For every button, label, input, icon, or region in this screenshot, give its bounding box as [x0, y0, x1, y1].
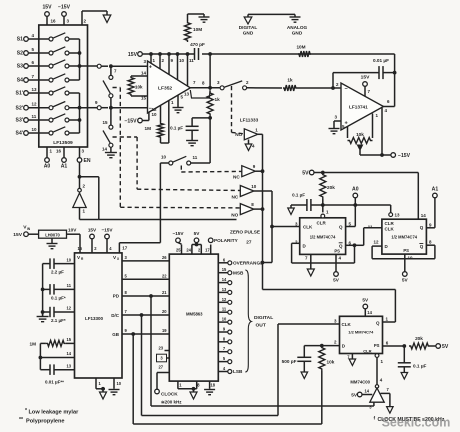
svg-text:A0: A0 — [352, 187, 359, 193]
svg-text:21: 21 — [162, 290, 167, 295]
svg-text:16: 16 — [77, 246, 82, 251]
svg-text:S3: S3 — [17, 64, 23, 70]
svg-text:CLK: CLK — [385, 227, 395, 232]
svg-text:MSB: MSB — [233, 270, 244, 275]
svg-text:0.01 µF**: 0.01 µF** — [45, 380, 64, 385]
svg-text:10M: 10M — [296, 45, 305, 50]
svg-text:S1: S1 — [17, 37, 23, 43]
svg-text:LSB: LSB — [233, 369, 243, 374]
svg-text:CLR: CLR — [363, 349, 371, 354]
svg-text:MM5863: MM5863 — [186, 312, 203, 317]
svg-text:10V: 10V — [68, 228, 77, 233]
svg-text:Low leakage mylar: Low leakage mylar — [29, 410, 80, 416]
svg-text:10k: 10k — [135, 85, 143, 90]
svg-text:A0: A0 — [44, 164, 51, 170]
svg-text:−15V: −15V — [172, 231, 184, 236]
svg-text:Q: Q — [339, 225, 343, 230]
svg-text:EN: EN — [84, 158, 91, 164]
svg-text:10: 10 — [251, 184, 257, 189]
svg-text:15V: 15V — [361, 75, 370, 81]
svg-text:≅200 kHz: ≅200 kHz — [161, 399, 182, 404]
svg-text:S4: S4 — [17, 78, 23, 84]
svg-text:NC: NC — [233, 175, 240, 180]
svg-text:24: 24 — [186, 247, 191, 252]
svg-text:LF352: LF352 — [158, 86, 172, 92]
svg-text:26: 26 — [162, 255, 167, 260]
svg-text:10: 10 — [222, 317, 227, 322]
svg-text:+: + — [149, 64, 152, 70]
svg-text:5V: 5V — [402, 278, 409, 283]
svg-text:PS: PS — [403, 248, 409, 253]
svg-text:10: 10 — [152, 112, 158, 117]
svg-text:LF13509: LF13509 — [53, 140, 73, 146]
svg-text:11: 11 — [32, 114, 37, 119]
svg-text:15V: 15V — [13, 232, 22, 238]
svg-text:1/2 MM74C74: 1/2 MM74C74 — [310, 234, 336, 239]
svg-text:1/2 MM74C74: 1/2 MM74C74 — [348, 329, 374, 334]
svg-text:15: 15 — [66, 337, 71, 342]
svg-text:10k: 10k — [356, 132, 364, 137]
svg-text:OUT: OUT — [256, 323, 266, 329]
svg-text:13: 13 — [184, 92, 190, 97]
svg-text:27: 27 — [246, 240, 252, 245]
svg-text:DIGITAL: DIGITAL — [254, 315, 273, 321]
svg-text:CLK: CLK — [342, 322, 352, 327]
svg-text:LF13300: LF13300 — [85, 316, 104, 321]
svg-text:PD: PD — [113, 294, 120, 299]
svg-text:13: 13 — [222, 287, 227, 292]
svg-text:22: 22 — [162, 274, 167, 279]
svg-text:5V: 5V — [194, 231, 201, 236]
svg-text:−15V: −15V — [101, 228, 113, 233]
svg-text:20k: 20k — [415, 336, 423, 341]
svg-text:13: 13 — [395, 213, 401, 218]
svg-text:+: + — [345, 121, 348, 127]
svg-text:0.1 µF: 0.1 µF — [170, 126, 183, 131]
svg-text:POLARITY: POLARITY — [214, 238, 239, 243]
svg-text:11: 11 — [222, 307, 227, 312]
svg-text:Q: Q — [420, 244, 424, 249]
svg-text:5V: 5V — [333, 278, 340, 283]
svg-text:D/C: D/C — [111, 313, 120, 318]
svg-text:23: 23 — [158, 345, 163, 350]
svg-text:OVERRANGE: OVERRANGE — [233, 261, 263, 266]
svg-text:14: 14 — [222, 277, 227, 282]
svg-text:11: 11 — [67, 283, 72, 288]
svg-text:CLK: CLK — [303, 225, 313, 230]
svg-text:PS: PS — [334, 248, 340, 253]
svg-text:14: 14 — [365, 389, 370, 394]
svg-text:14: 14 — [367, 310, 372, 315]
svg-text:27: 27 — [158, 364, 163, 369]
svg-text:S2: S2 — [17, 51, 23, 57]
svg-text:14: 14 — [141, 71, 147, 76]
svg-text:11: 11 — [189, 58, 194, 63]
svg-text:12: 12 — [222, 297, 227, 302]
svg-text:1/2 MM74C74: 1/2 MM74C74 — [391, 234, 417, 239]
svg-text:2.2 µF: 2.2 µF — [51, 270, 64, 275]
svg-text:S3': S3' — [16, 118, 23, 124]
svg-text:0.1 µF: 0.1 µF — [292, 193, 305, 198]
svg-text:CLR: CLR — [317, 221, 327, 226]
svg-text:GND: GND — [243, 31, 254, 36]
svg-text:10: 10 — [408, 256, 414, 261]
svg-text:17: 17 — [122, 246, 128, 251]
svg-text:5V: 5V — [351, 392, 358, 397]
svg-text:S2': S2' — [16, 105, 23, 111]
svg-text:LF11333: LF11333 — [240, 118, 259, 123]
svg-text:−15V: −15V — [124, 119, 137, 125]
svg-text:15: 15 — [102, 120, 108, 125]
svg-text:13: 13 — [32, 87, 38, 92]
svg-text:15V: 15V — [42, 5, 52, 11]
svg-text:11: 11 — [368, 225, 373, 230]
svg-text:18: 18 — [210, 382, 215, 387]
svg-text:15V: 15V — [88, 228, 97, 233]
svg-text:10M: 10M — [193, 27, 202, 32]
svg-text:10k: 10k — [327, 360, 335, 365]
svg-text:1k: 1k — [215, 97, 221, 102]
svg-text:15: 15 — [222, 267, 227, 272]
svg-text:0.01 µF: 0.01 µF — [373, 58, 389, 63]
svg-text:10: 10 — [32, 127, 38, 132]
svg-text:NO: NO — [231, 213, 238, 218]
svg-text:A1: A1 — [432, 187, 439, 193]
svg-text:15V: 15V — [128, 52, 138, 58]
svg-text:20k: 20k — [327, 185, 335, 190]
svg-text:LF13741: LF13741 — [349, 105, 368, 110]
svg-text:25: 25 — [176, 247, 181, 252]
svg-text:10: 10 — [161, 155, 167, 160]
svg-text:5V: 5V — [302, 171, 309, 177]
svg-text:11: 11 — [193, 155, 198, 160]
svg-text:LH0070: LH0070 — [45, 232, 60, 237]
svg-text:Seekic.com: Seekic.com — [382, 416, 451, 430]
svg-text:10: 10 — [179, 58, 185, 63]
svg-text:2.1 µF*: 2.1 µF* — [51, 318, 66, 323]
svg-text:MM74C00: MM74C00 — [350, 379, 370, 384]
svg-text:14: 14 — [102, 147, 108, 152]
svg-text:20: 20 — [162, 309, 167, 314]
svg-text:5V: 5V — [362, 298, 369, 303]
svg-text:1k: 1k — [287, 78, 293, 83]
svg-text:14: 14 — [421, 213, 427, 218]
svg-text:A1: A1 — [61, 164, 68, 170]
svg-text:14: 14 — [66, 351, 71, 356]
svg-text:12: 12 — [32, 102, 38, 107]
svg-text:500 pF: 500 pF — [282, 359, 297, 364]
svg-text:S1': S1' — [16, 91, 23, 97]
svg-text:−15V: −15V — [58, 5, 71, 11]
svg-text:13: 13 — [66, 363, 71, 368]
svg-text:1M: 1M — [144, 126, 151, 131]
svg-text:0.1 µF: 0.1 µF — [413, 364, 427, 369]
svg-text:S4': S4' — [16, 131, 23, 137]
svg-text:NO: NO — [235, 132, 242, 137]
svg-text:CLR: CLR — [385, 221, 395, 226]
svg-text:19: 19 — [162, 328, 167, 333]
svg-text:10: 10 — [117, 381, 122, 386]
svg-text:NC: NC — [232, 195, 239, 200]
svg-text:470 pF: 470 pF — [190, 42, 205, 47]
svg-text:16: 16 — [56, 149, 62, 154]
svg-text:GND: GND — [292, 31, 303, 36]
svg-text:CLOCK: CLOCK — [161, 391, 178, 396]
svg-text:0.1 µF*: 0.1 µF* — [51, 295, 66, 300]
svg-text:GB: GB — [112, 332, 120, 337]
svg-text:5V: 5V — [442, 344, 449, 350]
svg-text:Polypropylene: Polypropylene — [26, 419, 65, 425]
svg-text:PS: PS — [374, 343, 380, 348]
svg-text:Q: Q — [376, 321, 380, 326]
svg-text:−15V: −15V — [398, 153, 411, 159]
svg-text:Q: Q — [420, 225, 424, 230]
svg-text:10: 10 — [66, 257, 71, 262]
svg-text:17: 17 — [205, 247, 210, 252]
svg-text:ANALOG: ANALOG — [287, 25, 308, 30]
svg-text:ZERO PULSE: ZERO PULSE — [230, 230, 260, 235]
svg-text:12: 12 — [66, 306, 71, 311]
svg-text:16: 16 — [51, 19, 57, 24]
svg-text:12: 12 — [373, 239, 379, 244]
svg-text:DIGITAL: DIGITAL — [239, 25, 258, 30]
svg-text:−: − — [345, 87, 348, 93]
svg-text:1M: 1M — [29, 341, 36, 346]
